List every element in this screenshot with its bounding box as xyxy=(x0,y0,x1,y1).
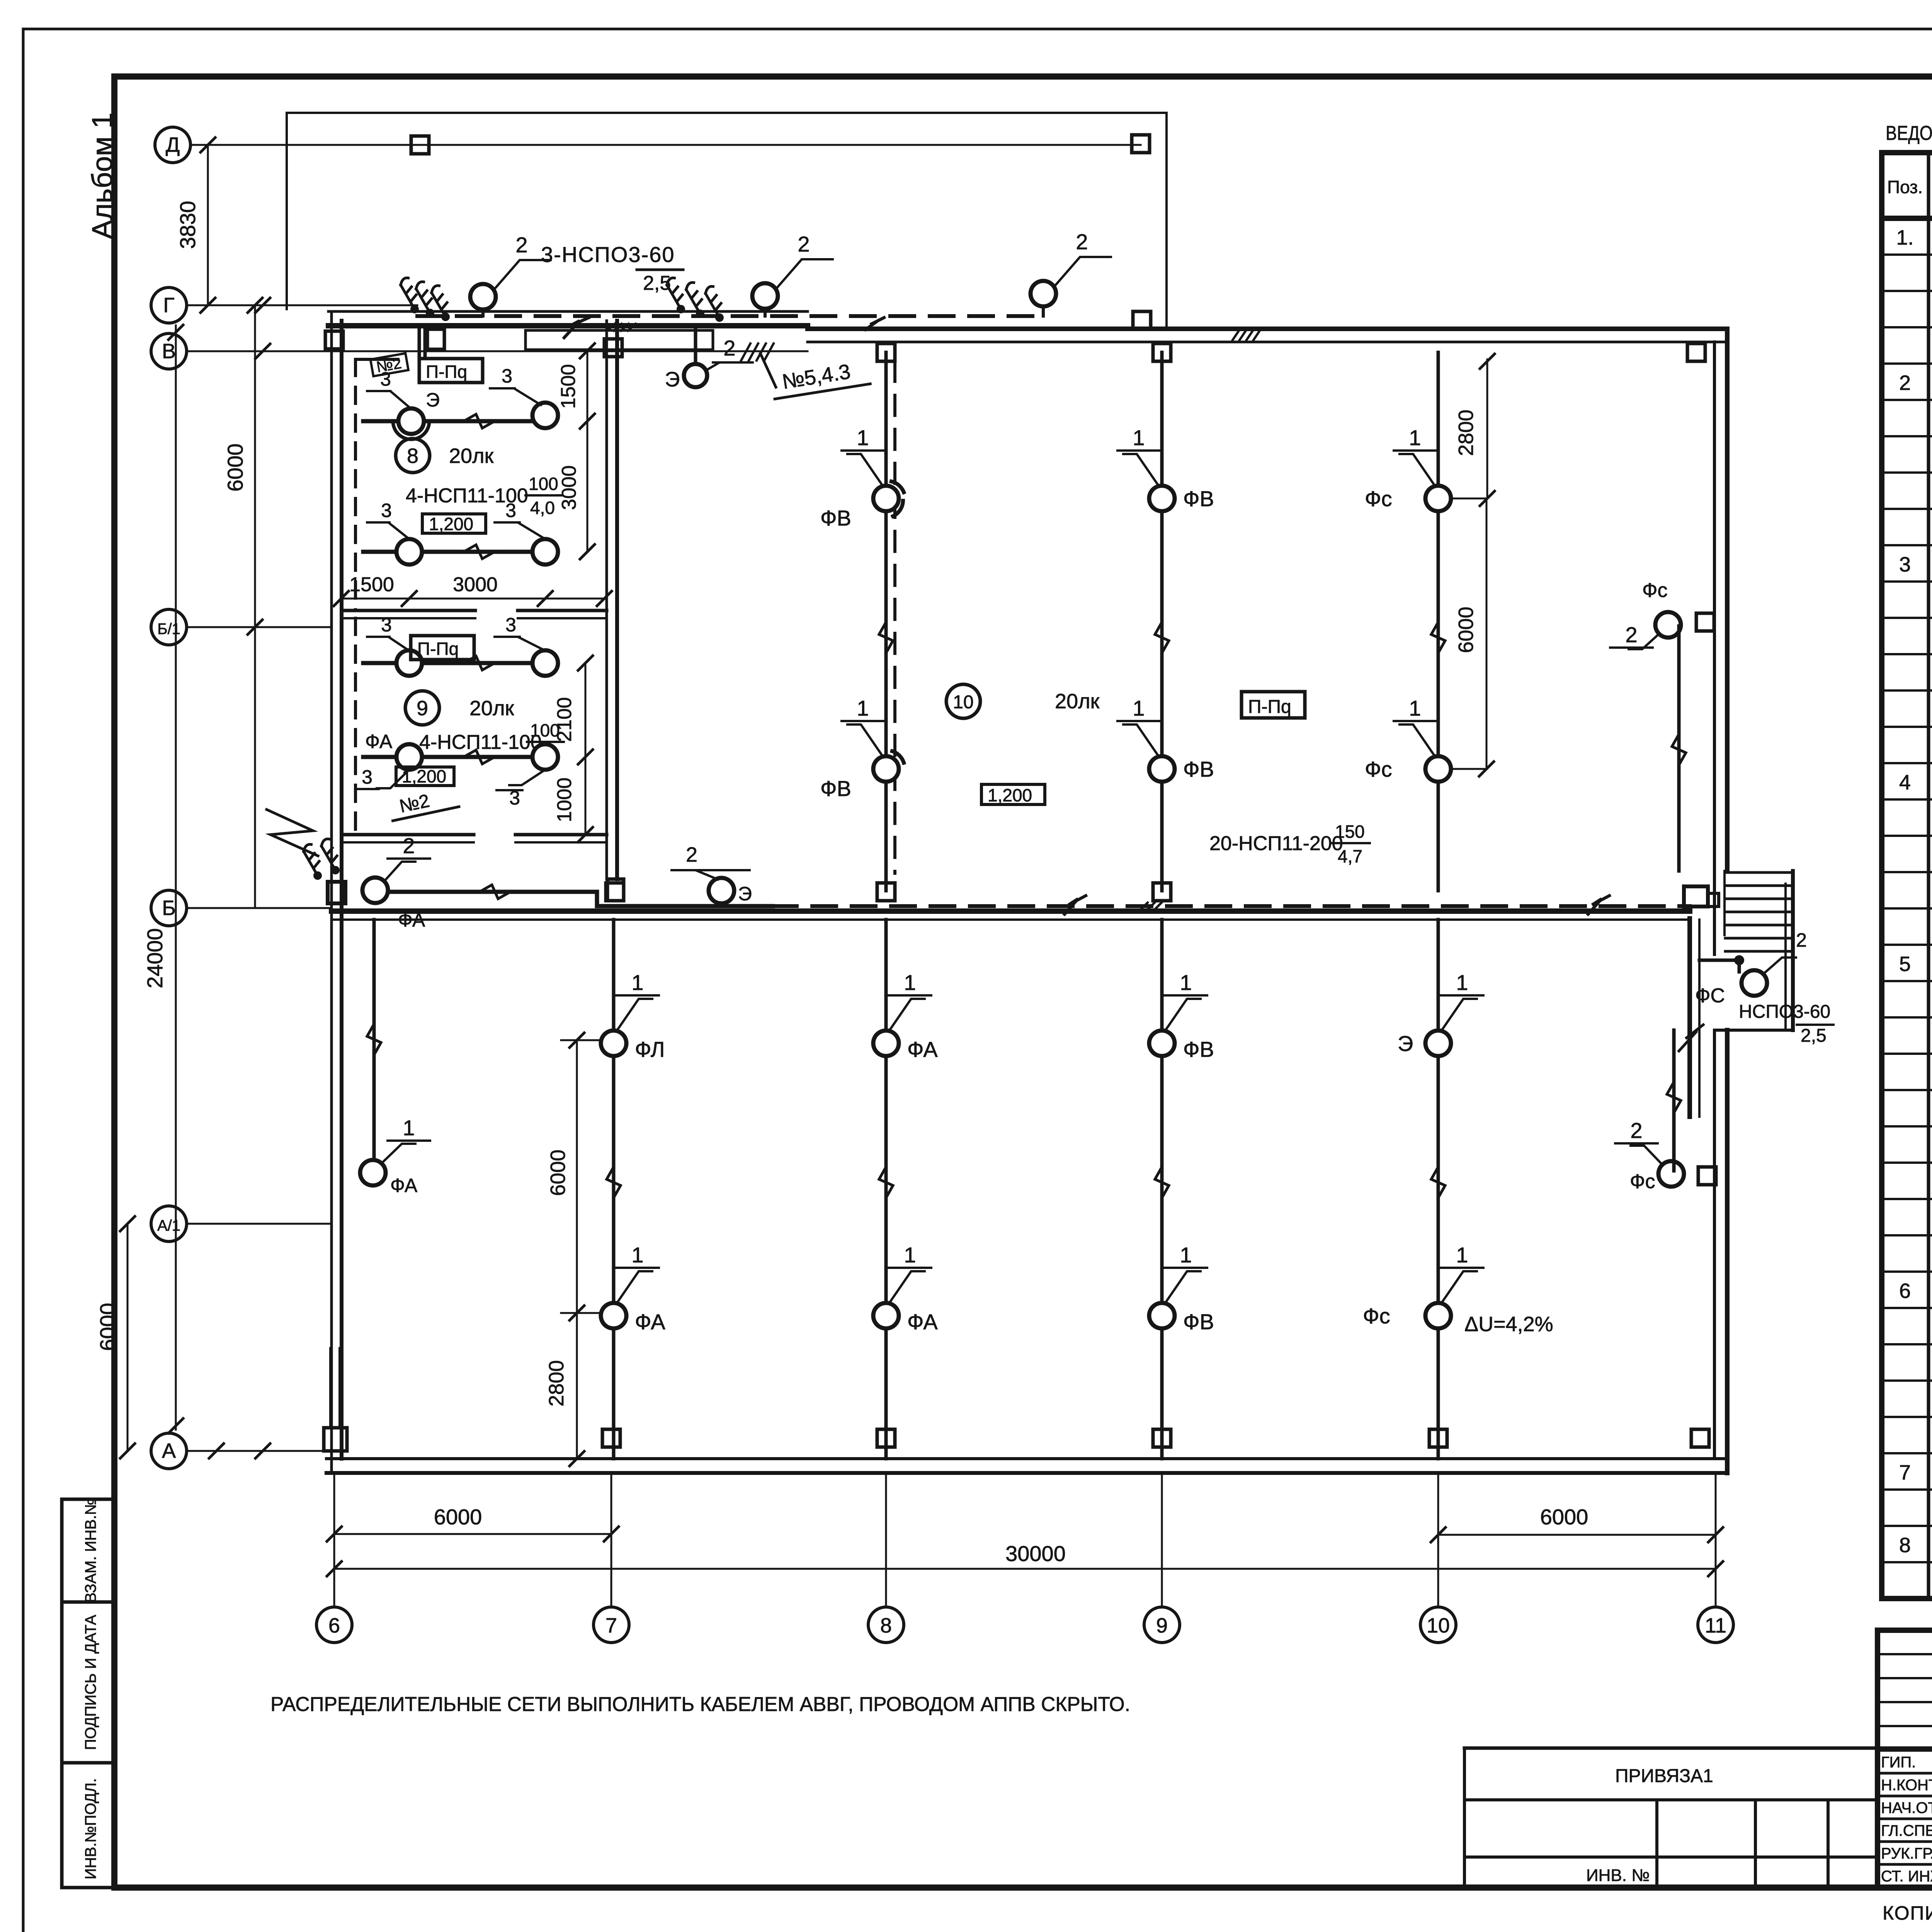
entry zigzag xyxy=(267,810,318,856)
leader 1 xyxy=(616,970,659,1031)
table header text xyxy=(1887,165,1932,211)
svg-text:В: В xyxy=(162,340,176,363)
column xyxy=(1691,1429,1709,1447)
svg-text:2: 2 xyxy=(798,232,810,256)
svg-text:ГИП.: ГИП. xyxy=(1881,1754,1916,1771)
svg-text:ФВ: ФВ xyxy=(1183,1037,1214,1061)
wire ФС east lower xyxy=(1667,1030,1681,1171)
lamp ФВ upper row2 xyxy=(820,751,904,801)
axis circle В xyxy=(151,333,187,369)
dim 1500 3000 bottom room8 xyxy=(334,573,612,606)
svg-text:П-Пq: П-Пq xyxy=(426,362,467,382)
svg-text:РУК.ГР.: РУК.ГР. xyxy=(1881,1845,1932,1862)
interior wall axis 7a xyxy=(607,321,617,879)
lamp ФВ upper row2 xyxy=(1149,756,1214,782)
axis circle 10 xyxy=(1420,1473,1456,1643)
svg-text:1: 1 xyxy=(857,696,869,720)
svg-text:1: 1 xyxy=(1133,696,1145,720)
svg-text:8: 8 xyxy=(880,1614,892,1637)
leader 1 xyxy=(842,696,884,757)
svg-text:6000: 6000 xyxy=(546,1150,570,1196)
svg-text:ФА: ФА xyxy=(635,1310,665,1334)
dim 6000 right xyxy=(1454,498,1494,776)
room 8 south wall xyxy=(342,611,607,618)
lamp type2 top 1 xyxy=(470,233,551,316)
lamp ФА lower row2 xyxy=(873,1303,938,1334)
axis Б1 line xyxy=(187,626,332,628)
svg-text:КОПИРОВАЛ: КОПИРОВАЛ xyxy=(1883,1902,1932,1924)
column xyxy=(606,883,624,901)
svg-text:3000: 3000 xyxy=(558,465,580,510)
axis А line xyxy=(187,1444,327,1458)
lamp room9 d xyxy=(532,744,558,770)
row ticks xyxy=(561,498,1486,1313)
svg-text:1: 1 xyxy=(1409,425,1421,450)
svg-text:Альбом 1: Альбом 1 xyxy=(86,112,118,239)
lamp Фс upper row1 xyxy=(1365,486,1451,511)
svg-text:3000: 3000 xyxy=(453,573,498,596)
svg-text:Г: Г xyxy=(163,294,174,317)
lamp Э at axis Г xyxy=(665,326,753,391)
hook group 3 xyxy=(298,838,346,881)
column xyxy=(877,1429,895,1447)
axis circle Б xyxy=(151,890,187,926)
break symbol top wire xyxy=(564,318,589,338)
lamp room9 b xyxy=(532,650,558,676)
svg-text:ФВ: ФВ xyxy=(1183,486,1214,511)
svg-text:Фс: Фс xyxy=(1642,579,1668,602)
hall wire axis 2293 upper xyxy=(879,352,893,891)
svg-text:150: 150 xyxy=(1335,821,1365,842)
svg-text:Д: Д xyxy=(166,133,180,156)
svg-text:20-НСП11-200: 20-НСП11-200 xyxy=(1209,832,1343,855)
wall break mark xyxy=(1679,1025,1703,1051)
middle feeder solid xyxy=(388,885,773,906)
axis В line xyxy=(187,344,808,359)
svg-text:1: 1 xyxy=(631,1243,643,1267)
svg-text:4-НСП11-100: 4-НСП11-100 xyxy=(406,485,528,507)
dashed circuit axis 8 xyxy=(893,361,896,873)
lamp room8 d xyxy=(532,539,558,565)
leader 1 xyxy=(1441,970,1483,1031)
dim 2100 room9 xyxy=(553,656,593,764)
svg-text:Э: Э xyxy=(426,389,440,411)
lamp Э room8 a xyxy=(393,389,440,439)
svg-text:7: 7 xyxy=(605,1614,617,1637)
leader 3 room8 row2 a xyxy=(367,500,409,539)
album label xyxy=(86,112,118,239)
lamp НСПО3 stairs xyxy=(1695,970,1767,1007)
svg-text:3: 3 xyxy=(502,365,512,387)
hatch top wire xyxy=(607,324,636,331)
column xyxy=(877,344,895,361)
room9 fixture label xyxy=(419,720,564,764)
svg-text:РАСПРЕДЕЛИТЕЛЬНЫЕ СЕТИ ВЫПОЛ: РАСПРЕДЕЛИТЕЛЬНЫЕ СЕТИ ВЫПОЛНИТЬ КАБЕЛЕМ… xyxy=(270,1693,1130,1716)
lintel beam top xyxy=(526,330,713,350)
svg-text:ФА: ФА xyxy=(907,1310,938,1334)
axis circle Д xyxy=(155,127,190,163)
riser box 1 xyxy=(419,326,444,356)
svg-text:2: 2 xyxy=(723,336,735,360)
lamp ФВ lower row2 xyxy=(1149,1303,1214,1334)
break middle feeder 1 xyxy=(1065,896,1086,914)
svg-text:1: 1 xyxy=(403,1116,415,1140)
lamp room9 c xyxy=(365,731,422,770)
svg-text:20лк: 20лк xyxy=(449,444,494,468)
svg-text:20лк: 20лк xyxy=(1055,690,1100,713)
svg-text:30000: 30000 xyxy=(1005,1541,1066,1566)
wire left wall xyxy=(367,920,381,1159)
leader 1 xyxy=(1165,970,1207,1031)
svg-text:3: 3 xyxy=(381,614,392,636)
leader 2 ФС east xyxy=(1610,622,1659,649)
svg-text:11: 11 xyxy=(1705,1614,1726,1637)
column xyxy=(1153,883,1171,901)
svg-text:1: 1 xyxy=(1180,970,1192,995)
column xyxy=(325,331,343,349)
shaft west wall xyxy=(1690,918,1699,1117)
leader 3 room9 row2 a xyxy=(355,766,409,789)
svg-text:ФВ: ФВ xyxy=(1183,757,1214,781)
svg-text:П-Пq: П-Пq xyxy=(1248,697,1291,717)
svg-text:4-НСП11-100: 4-НСП11-100 xyxy=(419,731,542,753)
svg-text:1,200: 1,200 xyxy=(402,766,446,786)
svg-text:ФА: ФА xyxy=(365,731,393,752)
svg-text:1: 1 xyxy=(904,970,916,995)
label П-IIа room9 xyxy=(411,636,474,660)
hall wire axis 3722 upper xyxy=(1431,352,1445,891)
svg-text:3830: 3830 xyxy=(175,201,200,249)
column on axis Д right xyxy=(1132,135,1150,153)
hall level box xyxy=(981,784,1045,805)
label dU xyxy=(1464,1313,1553,1336)
svg-text:2: 2 xyxy=(1076,230,1088,254)
svg-text:Н.КОНТР: Н.КОНТР xyxy=(1881,1777,1932,1794)
svg-text:Э: Э xyxy=(665,368,680,391)
axis circle А/1 xyxy=(151,1206,187,1242)
copy note xyxy=(1883,1889,1932,1924)
hatch top wall right xyxy=(1233,328,1261,340)
break middle feeder 2 xyxy=(1588,896,1609,914)
leader 3 room9 row1 b xyxy=(495,614,545,651)
svg-text:3-НСПО3-60: 3-НСПО3-60 xyxy=(541,242,675,267)
svg-text:А/1: А/1 xyxy=(157,1217,180,1234)
svg-text:ФВ: ФВ xyxy=(820,506,851,530)
svg-text:ГЛ.СПЕЦ.: ГЛ.СПЕЦ. xyxy=(1881,1822,1932,1839)
room8 lamp row1 xyxy=(363,414,533,428)
svg-text:Поз.: Поз. xyxy=(1887,177,1923,197)
svg-text:3: 3 xyxy=(505,614,516,636)
lamp type2 top 2 xyxy=(752,232,833,316)
column xyxy=(1153,344,1171,361)
break top dashed wire xyxy=(866,318,884,330)
label П-IIа hall xyxy=(1242,692,1305,718)
lamp room9 a xyxy=(396,650,422,676)
room8 level box xyxy=(422,514,486,534)
hook group 2 xyxy=(662,277,730,323)
hall fixture label xyxy=(1209,821,1370,866)
lamp ФА left wall xyxy=(360,1160,418,1196)
svg-text:4,0: 4,0 xyxy=(530,498,555,518)
leader 2 stairs xyxy=(1763,929,1807,974)
hall wire axis 3007 lower xyxy=(1155,920,1169,1459)
hatch middle feeder xyxy=(1140,903,1162,910)
leader 1 xyxy=(889,1243,931,1303)
svg-text:Б: Б xyxy=(162,896,175,920)
leader 3 room8 row1 b xyxy=(490,365,541,405)
svg-text:П-Пq: П-Пq xyxy=(417,639,459,659)
svg-text:Э: Э xyxy=(738,883,752,905)
room number 8 xyxy=(396,439,494,473)
svg-text:1,200: 1,200 xyxy=(429,514,473,534)
leader 1 xyxy=(616,1243,659,1303)
column on axis Д left xyxy=(411,136,429,154)
dim 1500 room8 xyxy=(557,344,595,429)
leader 3 room9 row1 a xyxy=(367,614,409,651)
hall wire axis 1588 lower xyxy=(607,920,621,1459)
middle feeder dashed xyxy=(773,904,1690,908)
hall wire axis 3722 lower xyxy=(1431,920,1445,1459)
title block frame xyxy=(1878,1630,1932,1888)
column xyxy=(604,339,622,357)
lamp room8 b xyxy=(532,403,558,428)
svg-text:6000: 6000 xyxy=(434,1505,482,1529)
svg-text:24000: 24000 xyxy=(143,928,167,988)
dim 1000 room9 xyxy=(553,757,593,842)
room9 level box xyxy=(396,766,454,786)
label №5,4.3 xyxy=(770,357,870,399)
column xyxy=(1133,311,1151,329)
svg-text:6000: 6000 xyxy=(1540,1505,1588,1529)
svg-text:1000: 1000 xyxy=(553,777,576,822)
svg-text:ФЛ: ФЛ xyxy=(635,1037,665,1061)
svg-text:6: 6 xyxy=(1899,1279,1911,1303)
lamp ФВ lower row1 xyxy=(1149,1031,1214,1061)
leader 1 xyxy=(1117,696,1160,757)
svg-text:9: 9 xyxy=(1156,1614,1168,1637)
svg-text:ИНВ.№ПОДЛ.: ИНВ.№ПОДЛ. xyxy=(82,1778,99,1879)
svg-text:7: 7 xyxy=(1899,1461,1911,1484)
svg-text:20лк: 20лк xyxy=(469,697,514,720)
svg-text:9: 9 xyxy=(417,697,428,720)
svg-text:100: 100 xyxy=(529,474,558,494)
table title xyxy=(1886,122,1932,145)
wall box ЯРП xyxy=(1684,886,1719,906)
hall top wall xyxy=(808,329,1724,342)
svg-text:Э: Э xyxy=(1398,1031,1413,1056)
dim 2800 right top xyxy=(1454,354,1495,506)
svg-text:Фс: Фс xyxy=(1630,1170,1655,1193)
svg-text:1500: 1500 xyxy=(557,364,580,409)
east wall axis 11 upper xyxy=(1714,329,1727,871)
lamp ФА lower row1 xyxy=(873,1031,938,1061)
room8 fixture label xyxy=(406,474,562,518)
axis Д line xyxy=(190,144,1141,146)
svg-text:ПРИВЯЗА1: ПРИВЯЗА1 xyxy=(1615,1766,1713,1786)
label N2 room9 xyxy=(388,785,459,821)
lamp ФС east upper xyxy=(1642,579,1681,638)
svg-text:3: 3 xyxy=(362,766,372,788)
svg-text:4: 4 xyxy=(1899,771,1911,794)
column xyxy=(1429,1429,1447,1447)
label П-IIа room8 xyxy=(419,359,483,383)
leader 2 Э xyxy=(672,843,750,879)
svg-text:НАЧ.ОТД.: НАЧ.ОТД. xyxy=(1881,1799,1932,1816)
west wall axis 6 xyxy=(332,311,342,1473)
room9 lamp row1 xyxy=(363,656,533,670)
axis circle Г xyxy=(151,287,187,323)
south wall axis А xyxy=(327,1459,1727,1473)
hall wire axis 2293 lower xyxy=(879,920,893,1459)
lamp Фс upper row2 xyxy=(1365,756,1451,782)
hook group 1 xyxy=(395,277,456,323)
svg-text:ФА: ФА xyxy=(398,909,425,931)
svg-text:6: 6 xyxy=(328,1614,340,1637)
axis Г line xyxy=(187,298,417,313)
label N2 room8 xyxy=(371,353,408,376)
column corner xyxy=(1687,344,1705,361)
axis circle 6 xyxy=(316,1473,352,1643)
room 9 south wall xyxy=(342,835,607,842)
svg-text:ПОДПИСЬ И ДАТА: ПОДПИСЬ И ДАТА xyxy=(82,1615,99,1750)
svg-text:4,7: 4,7 xyxy=(1338,846,1362,866)
svg-text:Фс: Фс xyxy=(1365,757,1392,781)
leader 3 room9 row2 b xyxy=(497,770,545,809)
svg-text:ФА: ФА xyxy=(907,1037,938,1061)
leader 2 ФС east lower xyxy=(1615,1118,1662,1165)
dim 6000 left upper xyxy=(223,298,262,908)
binding table xyxy=(1464,1748,1932,1888)
leader 1 xyxy=(1394,696,1436,757)
leader 1 xyxy=(842,425,884,486)
room number 10 xyxy=(946,684,1100,718)
svg-text:1: 1 xyxy=(1409,696,1421,720)
label 3-НСПО3-60/2,5 xyxy=(541,242,683,294)
svg-text:10: 10 xyxy=(1427,1614,1450,1637)
dim 6000 bottom left xyxy=(327,1505,619,1541)
svg-text:ФВ: ФВ xyxy=(1183,1310,1214,1334)
svg-text:6000: 6000 xyxy=(223,444,247,492)
svg-text:2: 2 xyxy=(1796,929,1807,951)
hall wire axis 3007 upper xyxy=(1155,352,1169,891)
svg-text:1: 1 xyxy=(1180,1243,1192,1267)
svg-text:Б/1: Б/1 xyxy=(157,621,180,638)
lamp ФА lower row2 xyxy=(601,1303,665,1334)
dim 6000 left lower xyxy=(95,1216,135,1458)
switch box Б xyxy=(607,879,624,901)
axis circle 7 xyxy=(594,1473,629,1643)
svg-text:3: 3 xyxy=(381,500,392,521)
svg-text:ВЕДОМОСТЬ УЗЛОВ УСТАНОВКИ ЭЛЕК: ВЕДОМОСТЬ УЗЛОВ УСТАНОВКИ ЭЛЕКТРИЧЕСКОГО… xyxy=(1886,122,1932,145)
svg-text:Фс: Фс xyxy=(1363,1304,1390,1328)
hatch B line xyxy=(741,344,776,387)
leader 1 xyxy=(1394,425,1436,486)
middle wall axis Б xyxy=(332,911,1690,920)
svg-text:10: 10 xyxy=(953,692,973,713)
svg-text:2,5: 2,5 xyxy=(1801,1026,1827,1046)
title block text xyxy=(1881,1669,1932,1885)
svg-text:2: 2 xyxy=(1899,371,1911,395)
stair wire xyxy=(1699,955,1744,972)
svg-text:2: 2 xyxy=(1625,622,1637,647)
lamp ФА at axis Б xyxy=(362,878,425,931)
svg-text:2: 2 xyxy=(403,833,415,858)
dim 6000 lower center xyxy=(546,1033,584,1320)
left margin stamp strip xyxy=(62,1498,114,1888)
room number 9 xyxy=(405,691,514,725)
svg-text:3: 3 xyxy=(1899,553,1911,576)
svg-text:100: 100 xyxy=(530,720,560,740)
svg-text:8: 8 xyxy=(1899,1534,1911,1557)
svg-text:2800: 2800 xyxy=(1454,410,1478,456)
svg-text:2: 2 xyxy=(1630,1118,1642,1143)
svg-text:2800: 2800 xyxy=(545,1360,568,1406)
lamp Фс lower row2 xyxy=(1363,1303,1451,1328)
column xyxy=(1153,1429,1171,1447)
dim 3830 xyxy=(175,138,215,313)
svg-text:ВЗАМ. ИНВ.№: ВЗАМ. ИНВ.№ xyxy=(82,1498,99,1603)
svg-text:НСПО3-60: НСПО3-60 xyxy=(1739,1002,1830,1022)
dim 3000 room8 xyxy=(558,421,595,559)
lamp ФВ upper row1 xyxy=(820,481,904,530)
leader 3 room8 row2 b xyxy=(495,500,545,539)
wall box east lower xyxy=(1698,1167,1716,1185)
lamp ФС east lower xyxy=(1630,1161,1684,1193)
room8 wire riser xyxy=(355,359,398,611)
column xyxy=(602,1429,620,1447)
svg-text:1: 1 xyxy=(631,970,643,995)
svg-text:ФА: ФА xyxy=(390,1175,418,1196)
room8 lamp row2 xyxy=(363,545,533,559)
svg-text:2: 2 xyxy=(686,843,697,866)
svg-text:2: 2 xyxy=(515,233,527,257)
svg-text:ΔU=4,2%: ΔU=4,2% xyxy=(1464,1313,1553,1336)
leader 3 room8 row1 a xyxy=(367,368,411,409)
lamp type2 top 3 xyxy=(1031,230,1111,316)
svg-text:1: 1 xyxy=(1456,970,1468,995)
leader 1 xyxy=(1117,425,1160,486)
stairwell xyxy=(1714,871,1793,1030)
equipment table grid xyxy=(1882,153,1932,1599)
top feeder wire xyxy=(417,314,1047,318)
axis circle 9 xyxy=(1144,1473,1180,1643)
lamp room8 c xyxy=(396,539,422,565)
distribution note xyxy=(270,1693,1130,1716)
east wall axis 11 lower xyxy=(1714,1030,1727,1473)
dim 30000 bottom xyxy=(327,1541,1723,1576)
leader 1 xyxy=(889,970,931,1031)
axis circle 11 xyxy=(1698,1473,1733,1643)
svg-text:СТ. ИНЖ.: СТ. ИНЖ. xyxy=(1881,1868,1932,1885)
lamp Э lower row1 xyxy=(1398,1031,1451,1056)
leader 2 ФА xyxy=(384,833,430,881)
dim 2800 lower center xyxy=(545,1313,584,1466)
lamp ФВ upper row1 xyxy=(1149,486,1214,511)
svg-text:1: 1 xyxy=(904,1243,916,1267)
column xyxy=(877,883,895,901)
svg-text:ФВ: ФВ xyxy=(820,776,851,801)
room9 lamp row2 xyxy=(363,750,533,764)
svg-text:1.: 1. xyxy=(1896,226,1913,249)
wall box east xyxy=(1696,613,1714,631)
svg-text:Фс: Фс xyxy=(1365,486,1392,511)
axis А1 line xyxy=(187,1223,332,1225)
axis Б line xyxy=(187,907,332,909)
svg-text:5: 5 xyxy=(1899,952,1911,976)
svg-text:6000: 6000 xyxy=(1454,607,1478,653)
dim 24000 xyxy=(143,325,183,1433)
riser box Б xyxy=(328,882,345,903)
